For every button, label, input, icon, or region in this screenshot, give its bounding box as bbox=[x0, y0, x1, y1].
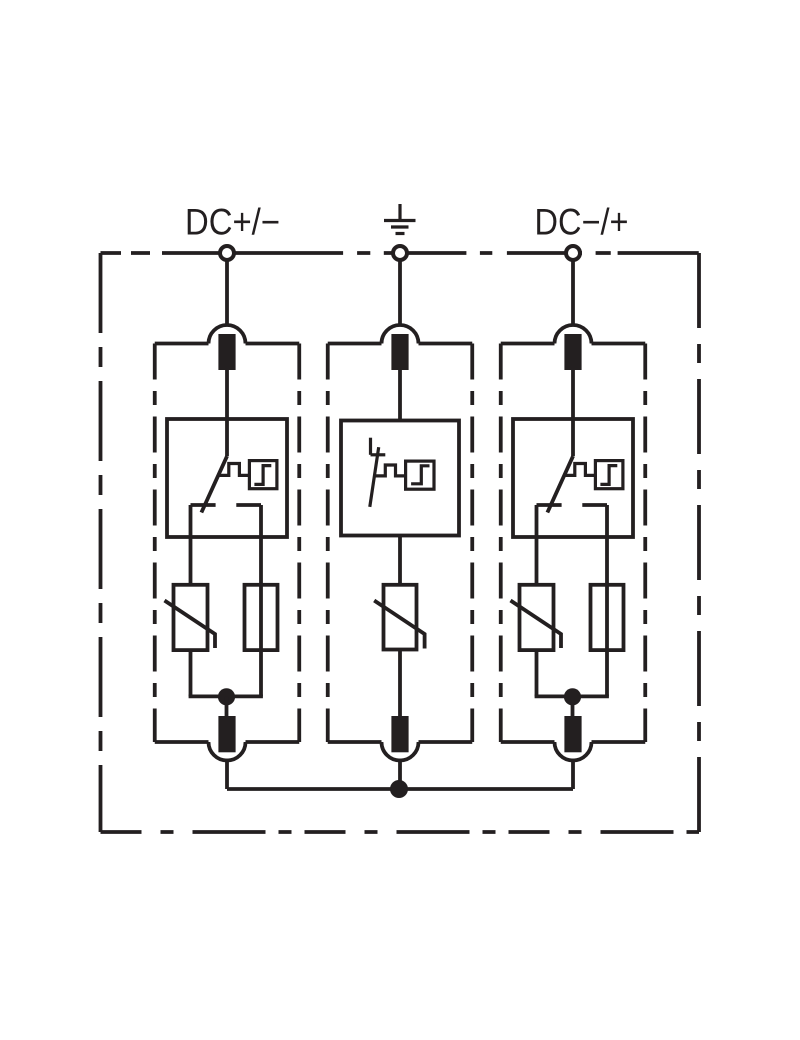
lower contact bar (with gap), branch 1 bbox=[191, 503, 262, 507]
fuse, branch 3 bbox=[591, 585, 624, 650]
disconnect-device box, branch 3 bbox=[513, 419, 633, 537]
wire: top pin to switch input bbox=[225, 370, 229, 456]
plug-in contact top, branch 1 (arc + pin) bbox=[209, 325, 246, 370]
wire: varistor down to junction, branch 3 bbox=[535, 650, 539, 696]
wire: top pin to disconnect box bbox=[398, 370, 402, 421]
plug-in contact bottom, branch 1 (arc + pin) bbox=[209, 716, 246, 761]
varistor, branch 2 bbox=[384, 585, 417, 650]
wire: terminal 3 down to top plug contact bbox=[571, 253, 575, 328]
plug-in contact bottom, branch 3 (arc + pin) bbox=[555, 716, 592, 761]
ground symbol above earth terminal bbox=[384, 204, 416, 234]
wire: top pin to switch input bbox=[571, 370, 575, 456]
remote-signalling contact square, branch 3 bbox=[595, 461, 623, 489]
isolating spark-gap electrode line, branch 2 bbox=[369, 438, 372, 455]
terminal DC-/+ (circle) bbox=[566, 246, 580, 260]
wire: bottom arc to bus junction bbox=[398, 759, 402, 790]
wire: junction cross bar, branch 1 bbox=[189, 695, 263, 699]
terminal DC+/- (circle) bbox=[220, 246, 234, 260]
varistor diagonal stroke, branch 2 bbox=[374, 601, 424, 649]
varistor diagonal stroke, branch 3 bbox=[511, 601, 562, 649]
wire: varistor down to junction, branch 1 bbox=[189, 650, 193, 696]
inner module box 2 (dash-dot) bbox=[328, 344, 473, 743]
wire: bottom arc to bus, branch 3 bbox=[571, 759, 575, 790]
junction dot, branch 1 bbox=[218, 688, 235, 705]
varistor, branch 3 bbox=[520, 585, 554, 650]
enclosure border top edge (dash-dot) bbox=[101, 251, 700, 255]
svg-text:DC+/−: DC+/− bbox=[185, 202, 280, 243]
enclosure border left edge (dash-dot) bbox=[99, 253, 103, 832]
wire: terminal 1 down to top plug contact bbox=[225, 253, 229, 328]
wire: bottom arc to bus, branch 1 bbox=[225, 759, 229, 790]
disconnect-device box, branch 1 bbox=[167, 419, 287, 537]
wire: contact bar down to varistor, branch 1 bbox=[189, 505, 193, 585]
inner module box 3 (dash-dot) bbox=[501, 344, 646, 743]
bottom equipotential bus wire bbox=[227, 787, 573, 791]
earth terminal (circle) bbox=[393, 246, 407, 260]
plug-in contact top, branch 3 (arc + pin) bbox=[555, 325, 592, 370]
bus junction dot (earth node) bbox=[390, 780, 408, 798]
wire: varistor down to bottom pin, branch 2 bbox=[398, 650, 402, 717]
lower contact bar (with gap), branch 3 bbox=[537, 503, 608, 507]
wire: junction cross bar, branch 3 bbox=[535, 695, 609, 699]
varistor diagonal stroke, branch 1 bbox=[165, 601, 216, 649]
switch blade (thermal disconnector), branch 3 bbox=[547, 456, 573, 512]
wire: earth terminal down to top plug contact bbox=[398, 253, 402, 328]
remote-signalling contact square, branch 2 bbox=[406, 461, 434, 489]
varistor, branch 1 bbox=[174, 585, 208, 650]
electrode tick, branch 2 bbox=[371, 453, 386, 456]
disconnect-device box, branch 2 bbox=[341, 421, 459, 536]
enclosure border right edge (dash-dot) bbox=[697, 253, 701, 832]
wire: junction to bottom pin, branch 3 bbox=[571, 697, 575, 716]
plug-in contact top, branch 2 (arc + pin) bbox=[382, 325, 419, 370]
enclosure border bottom edge (dash-dot) bbox=[101, 830, 700, 834]
plug-in contact bottom, branch 2 (arc + pin) bbox=[382, 716, 419, 761]
wire: junction to bottom pin, branch 1 bbox=[225, 697, 229, 716]
step-waveform link to signalling contact, branch 3 bbox=[564, 464, 595, 476]
wire: contact bar down through fuse, branch 1 bbox=[259, 505, 263, 696]
inner module box 1 (dash-dot) bbox=[155, 344, 300, 743]
disconnect blade (near vertical), branch 2 bbox=[370, 447, 379, 507]
step glyph inside signalling square, branch 3 bbox=[600, 466, 617, 485]
step glyph inside signalling square, branch 1 bbox=[254, 466, 271, 485]
switch blade (thermal disconnector), branch 1 bbox=[201, 456, 227, 512]
svg-text:DC−/+: DC−/+ bbox=[535, 202, 629, 243]
fuse, branch 1 bbox=[245, 585, 278, 650]
wire: contact bar down to varistor, branch 3 bbox=[535, 505, 539, 585]
junction dot, branch 3 bbox=[564, 688, 581, 705]
wire: contact bar down through fuse, branch 3 bbox=[605, 505, 609, 696]
step glyph inside signalling square, branch 2 bbox=[411, 466, 429, 484]
step-waveform link to signalling contact, branch 1 bbox=[218, 464, 249, 476]
remote-signalling contact square, branch 1 bbox=[249, 461, 277, 489]
step-waveform link to signalling contact, branch 2 bbox=[375, 465, 405, 476]
wire: disconnect box to varistor, branch 2 bbox=[398, 536, 402, 585]
